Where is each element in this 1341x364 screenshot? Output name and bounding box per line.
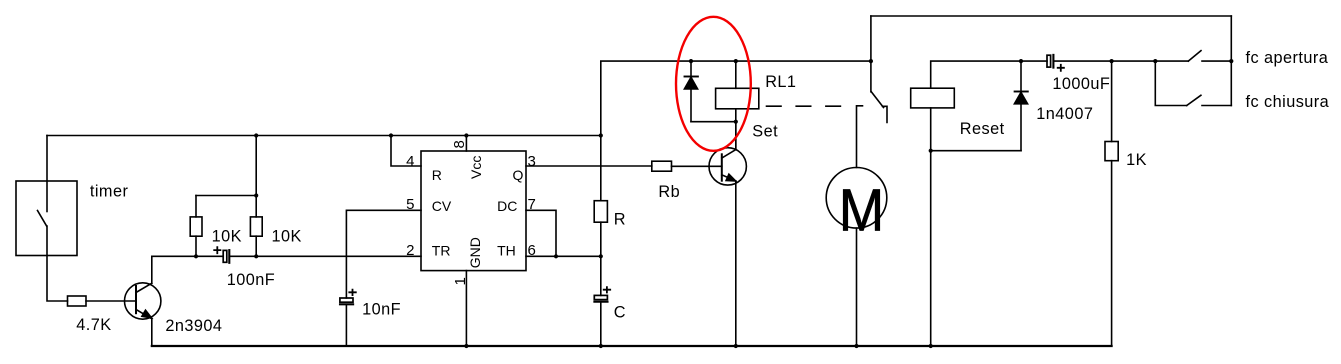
capacitor 10nF [340,298,353,302]
node junction dot top rail right drop [1229,59,1233,63]
svg-text:GND: GND [467,237,483,268]
svg-text:Reset: Reset [960,120,1005,138]
wire timer switch upper lead [46,136,48,212]
svg-text:4.7K: 4.7K [76,316,111,334]
wire 4.7K to Q1 base [86,300,136,302]
switch relay NC contact [883,106,888,122]
node junction dot GND rail Q2 [734,344,738,348]
resistor 10K right [250,217,262,236]
wire Q1 collector riser [151,256,153,283]
svg-text:1K: 1K [1126,151,1147,169]
wire RL1 top lead [735,61,737,88]
wire Vcc drop to 10K tops [255,136,257,196]
wire pin6 TH lead [526,255,601,257]
wire pin4 reset lead [391,136,421,167]
node junction dot GND rail motor [854,344,858,348]
wire dashed relay link [767,105,843,107]
svg-text:TH: TH [497,243,516,259]
resistor R [594,201,607,223]
resistor Rb [652,161,672,171]
wire fc chiusura right stub [1202,105,1231,107]
node junction dot pin4 branch [389,133,393,137]
svg-text:DC: DC [497,198,517,214]
wire 10K-right top lead [255,196,257,217]
wire 1K top lead [1111,61,1113,141]
svg-text:TR: TR [432,243,451,259]
svg-text:fc chiusura: fc chiusura [1246,93,1330,111]
capacitor 100nF [223,250,227,262]
node junction dot 10K-right bottom [254,254,258,258]
wire R top lead [600,136,602,201]
relay coil RL1 [716,88,759,109]
svg-text:CV: CV [432,198,452,214]
svg-text:2: 2 [406,242,414,259]
wire D1 bottom to coil bottom [691,121,736,123]
svg-text:3: 3 [528,153,536,170]
svg-text:R: R [432,167,442,183]
wire pin8 Vcc lead [465,136,467,152]
svg-text:10K: 10K [212,227,242,245]
wire 1K bottom lead [1111,161,1113,346]
wire trigger row left segment [152,255,223,257]
wire pin1 GND lead [465,271,467,346]
svg-text:timer: timer [90,182,129,200]
wire pin3 Q output to Rb [526,165,652,167]
wire fc apertura right stub [1202,60,1231,62]
wire Vcc riser to relay row [601,61,871,135]
node junction dot 10K top tie [254,193,258,197]
svg-text:Vcc: Vcc [468,156,484,179]
wire C bottom lead [600,302,602,346]
svg-text:R: R [614,211,626,229]
node junction dot reset bottom tie [929,149,933,153]
motor M1 [826,168,887,229]
svg-text:100nF: 100nF [227,271,275,289]
svg-text:1000uF: 1000uF [1052,75,1110,93]
wire 10K-left top lead [195,196,197,217]
svg-text:4: 4 [406,153,414,170]
wire Q2 collector to relay [735,122,737,150]
svg-text:Rb: Rb [658,183,680,201]
switch relay NO contact to motor [857,106,863,168]
wire R bottom to C top [600,222,602,295]
node junction dot D2 top [1019,59,1023,63]
node junction dot pin8 branch [464,133,468,137]
diode D1 freewheel [690,61,692,122]
node junction dot 10K-left bottom [194,254,198,258]
svg-text:10nF: 10nF [362,301,401,319]
capacitor 1000uF [1047,55,1051,67]
wire 10K-right bottom lead [255,236,257,256]
node junction dot GND rail pin1 [464,344,468,348]
svg-text:10K: 10K [272,227,302,245]
node junction dot contact common [869,59,873,63]
wire top rail [871,15,1231,17]
svg-text:Set: Set [752,122,778,140]
wire Q2 emitter to ground rail [735,181,737,346]
wire pin5 CV lead [346,210,421,298]
highlight red ellipse [676,17,751,151]
svg-text:C: C [614,303,626,321]
node junction dot DC/TH tie [554,254,558,258]
wire reset coil top feed [931,61,1047,88]
wire reset bottom to D2 [931,150,1021,152]
svg-text:M: M [839,177,885,244]
node junction dot coil bottom [734,120,738,124]
op-amp U1 555 body [421,151,526,271]
node junction dot chiusura branch [1153,59,1157,63]
resistor 1K [1105,142,1118,161]
wire Q1 emitter to ground rail [151,319,153,346]
svg-text:8: 8 [451,140,468,148]
node junction dot 10K branch [254,133,258,137]
wire RL1 bottom lead [735,109,737,150]
switch fc apertura blade [1188,51,1201,62]
node junction dot TH/RC tie [599,254,603,258]
timer enclosure box [16,181,77,256]
wire Rb to Q2 base [672,165,722,167]
resistor 10K left [190,217,202,236]
node junction dot GND rail C [599,344,603,348]
switch relay contact blade [871,92,883,108]
wire reset coil bottom to ground rail [930,108,932,346]
wire timer switch lower lead [47,226,68,301]
wire fc chiusura left drop [1155,61,1186,105]
svg-text:2n3904: 2n3904 [165,317,222,335]
svg-text:RL1: RL1 [765,73,796,91]
wire Vcc top-left rail [47,135,601,137]
svg-text:1n4007: 1n4007 [1036,105,1093,123]
wire pin7 DC lead [526,210,556,256]
capacitor C [594,295,607,299]
wire motor bottom lead [856,228,858,346]
node junction dot GND rail reset [929,344,933,348]
transistor Q1 2n3904 [125,283,161,319]
svg-text:fc apertura: fc apertura [1246,49,1329,67]
resistor 4.7K [68,296,87,306]
wire trigger row right segment to pin2 [230,255,421,257]
switch fc chiusura blade [1187,95,1201,105]
wire right feed row [1053,60,1188,62]
node junction dot 1K top [1110,59,1114,63]
node junction dot R/Vcc riser [599,133,603,137]
transistor Q2 [709,148,746,185]
wire ground bottom rail [152,345,1112,347]
relay coil Reset [911,88,955,108]
wire 10K top tie across [196,195,256,197]
wire top rail right drop [1230,16,1232,106]
wire relay contact common [870,16,872,92]
wire 10nF bottom lead [345,304,347,346]
diode D2 1n4007 [1020,61,1022,151]
switch timer blade [38,211,47,227]
node junction dot RL1 top [734,59,738,63]
node junction dot D1 top [689,59,693,63]
svg-text:Q: Q [513,167,524,183]
wire 10K-left bottom lead [195,236,197,256]
